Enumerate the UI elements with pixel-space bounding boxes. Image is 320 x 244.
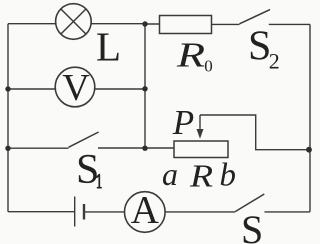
svg-text:b: b (220, 157, 237, 193)
svg-text:P: P (172, 103, 194, 142)
svg-text:2: 2 (269, 48, 280, 73)
svg-text:S: S (241, 207, 263, 244)
svg-text:L: L (96, 24, 121, 70)
svg-text:0: 0 (204, 57, 213, 76)
svg-text:S: S (76, 147, 99, 193)
svg-text:R: R (189, 158, 213, 194)
svg-text:A: A (131, 189, 159, 232)
svg-text:a: a (162, 156, 178, 192)
svg-text:V: V (62, 67, 90, 109)
svg-text:R: R (176, 35, 205, 74)
